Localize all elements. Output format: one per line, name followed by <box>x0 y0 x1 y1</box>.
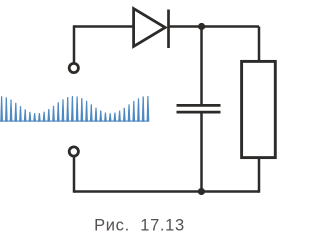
svg-text:Рис. 17.13: Рис. 17.13 <box>94 217 185 235</box>
